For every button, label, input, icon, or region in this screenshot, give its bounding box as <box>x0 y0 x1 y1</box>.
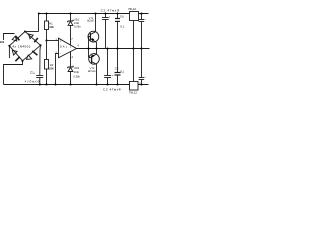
node VD2 bottom rail <box>69 83 71 85</box>
zener VD1 <box>68 14 73 45</box>
wire VT2 base <box>89 57 92 59</box>
zener VD2 <box>68 51 73 84</box>
wire top rail (+raw DC) <box>39 13 149 15</box>
capacitor C4 0,1 <box>115 14 120 49</box>
node C5 top mid rail <box>116 47 118 49</box>
wire -12V output <box>138 84 149 86</box>
capacitor C2 47uF <box>102 14 109 49</box>
node C3 top mid rail <box>106 47 108 49</box>
wire pin2 to bottom rail feedback <box>56 54 59 85</box>
wire +12V output <box>138 13 148 15</box>
svg-text:+: + <box>109 15 111 19</box>
svg-text:6: 6 <box>78 44 80 47</box>
svg-text:+: + <box>34 72 36 75</box>
wire mid output rail <box>77 48 150 50</box>
wire VT1 base <box>89 36 91 38</box>
diode D3 bottom-left bridge edge <box>9 46 22 61</box>
svg-text:+: + <box>60 39 62 43</box>
wire node to op-amp pin3 <box>47 40 59 42</box>
wire AC input from connector up and over <box>4 34 15 41</box>
svg-text:0,5Вт: 0,5Вт <box>74 75 81 78</box>
capacitor C3 47uF <box>104 49 111 85</box>
diode D2 top-right bridge edge <box>25 32 41 46</box>
node bridge right corner <box>39 44 41 46</box>
diode D4 bottom-right bridge edge <box>23 45 41 61</box>
node C7 bottom <box>140 83 142 85</box>
svg-text:C4: C4 <box>120 14 124 18</box>
svg-text:100К: 100К <box>49 25 54 29</box>
node emitters mid rail <box>95 47 97 49</box>
svg-text:ВС556: ВС556 <box>88 70 96 73</box>
op-amp DA1.1 <box>59 38 77 58</box>
capacitor C7 <box>139 49 145 85</box>
node C3 bottom <box>106 83 108 85</box>
wire riser from bridge + corner to top rail <box>38 14 40 32</box>
wire bridge top corner to riser <box>25 31 39 33</box>
svg-text:470мкФ: 470мкФ <box>25 80 41 84</box>
node R2 bottom <box>45 83 47 85</box>
capacitor C6 <box>139 14 145 49</box>
node C2 top <box>104 12 106 14</box>
svg-text:79L12: 79L12 <box>129 90 137 94</box>
node C6 bottom mid rail <box>140 47 142 49</box>
svg-text:ВС547: ВС547 <box>87 19 95 22</box>
svg-text:-: - <box>60 52 61 56</box>
node regulator gnd mid rail <box>132 47 134 49</box>
svg-text:0,5Вт: 0,5Вт <box>74 25 81 28</box>
node VT2 collector bottom rail <box>95 83 97 85</box>
wire bottom rail (-raw DC) <box>4 84 149 86</box>
node VD1 top rail <box>69 12 71 14</box>
node divider midpoint <box>45 39 47 41</box>
svg-text:7: 7 <box>71 38 73 41</box>
node riser joins top rail <box>38 13 40 15</box>
svg-text:VD2: VD2 <box>74 67 80 70</box>
svg-text:DA1.1: DA1.1 <box>60 46 72 49</box>
svg-text:+: + <box>112 74 114 78</box>
node R1 top rail <box>45 12 47 14</box>
svg-text:15В: 15В <box>74 71 79 74</box>
node pin2 riser at bottom rail <box>54 83 56 85</box>
svg-text:C5: C5 <box>115 67 119 71</box>
node bridge top corner <box>24 30 26 32</box>
node output to bases <box>87 47 89 49</box>
transistor VT1 BC547 <box>88 14 99 49</box>
resistor R1 100K <box>45 14 49 41</box>
regulator U1 78L12 <box>130 12 139 49</box>
svg-text:C3 47мкФ: C3 47мкФ <box>103 88 122 92</box>
svg-text:220: 220 <box>0 41 5 44</box>
svg-text:0,1: 0,1 <box>120 25 124 29</box>
node C1 bottom <box>39 83 41 85</box>
svg-text:+: + <box>144 75 146 79</box>
svg-text:0,1: 0,1 <box>120 69 124 73</box>
capacitor C5 0,1 <box>115 49 121 85</box>
wire stub below bridge left corner <box>8 46 10 58</box>
svg-text:4: 4 <box>71 56 73 59</box>
wire bases riser from op-amp output <box>88 37 90 58</box>
diode D1 top-left bridge edge <box>9 32 25 46</box>
resistor R2 100K <box>45 41 49 85</box>
node VT1 collector top rail <box>94 12 96 14</box>
svg-text:C2 47мкФ: C2 47мкФ <box>101 9 120 13</box>
svg-text:4x 1N4001: 4x 1N4001 <box>12 44 30 48</box>
wire bridge bottom corner down-left-down to bottom rail <box>4 61 23 85</box>
node C4 top <box>116 12 118 14</box>
svg-text:78L12: 78L12 <box>128 7 136 11</box>
node bridge left corner <box>8 45 10 47</box>
node C6 top <box>140 12 142 14</box>
svg-text:100К: 100К <box>49 66 54 70</box>
regulator U2 79L12 <box>130 49 139 91</box>
svg-text:+: + <box>144 18 146 22</box>
node C5 bottom <box>116 83 118 85</box>
transistor VT2 BC556 <box>89 49 100 85</box>
node bridge bottom corner <box>21 60 23 62</box>
capacitor C1 (main filter 470uF) <box>36 45 43 84</box>
